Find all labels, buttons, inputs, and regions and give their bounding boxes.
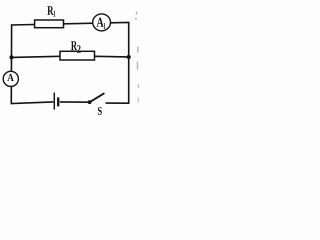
wire battery to switch pivot [60,101,90,103]
label S [98,107,102,115]
faint cropped marks at right edge [135,12,138,103]
wire middle branch [12,56,129,57]
ammeter A1 body [93,14,111,31]
switch S pivot node [88,100,92,104]
wire main loop (left, top, right sides and bottom end segments) [11,22,128,103]
switch S blade [90,93,105,102]
label A1 [97,18,104,27]
battery cell long plate [53,93,55,110]
label R2 [71,41,77,50]
label A [7,74,14,81]
node left junction [9,55,13,59]
label R1 [47,6,53,15]
ammeter A body [3,71,18,86]
resistor R1 [35,20,64,28]
battery cell short thick plate [57,97,59,106]
node right junction [127,55,131,59]
resistor R2 [60,51,95,60]
